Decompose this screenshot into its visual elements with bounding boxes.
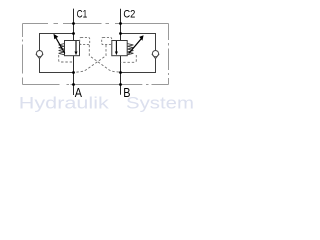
svg-text:Hydraulik: Hydraulik xyxy=(19,94,110,112)
enclosure boundary right (dash-dot) xyxy=(168,24,170,85)
junction dot C2/boundary xyxy=(119,22,122,25)
relief valve left envelope xyxy=(65,41,80,56)
wire A line below valve xyxy=(73,56,75,95)
check valve right (ball + seat) xyxy=(152,51,158,57)
adjustment arrow right xyxy=(129,39,142,54)
pilot box left (dashed) xyxy=(80,37,90,44)
relief valve right internal flow arrow xyxy=(115,41,117,52)
junction dot C1/check rail xyxy=(72,32,75,35)
wire C2 port line xyxy=(120,9,122,41)
relief valve left internal flow arrow xyxy=(75,41,77,52)
junction dot B/boundary xyxy=(119,83,122,86)
svg-text:A: A xyxy=(75,85,82,100)
enclosure boundary left (dash-dot) xyxy=(22,24,24,85)
pilot box right (dashed) xyxy=(102,37,112,44)
junction dot B/check return xyxy=(119,71,122,74)
junction dot C1/boundary xyxy=(72,22,75,25)
svg-text:C1: C1 xyxy=(77,9,88,21)
wire right check branch xyxy=(121,34,156,73)
svg-text:System: System xyxy=(126,94,194,112)
pilot line left-to-B (dashed) xyxy=(89,45,120,72)
wire B line below valve xyxy=(120,56,122,95)
relief valve right envelope xyxy=(112,41,127,56)
junction dot A/check return xyxy=(72,71,75,74)
wire left check branch xyxy=(40,34,74,73)
junction dot A/boundary xyxy=(72,83,75,86)
check valve left (ball + seat) xyxy=(36,51,42,57)
spring left xyxy=(59,44,65,55)
enclosure boundary top (dash-dot) xyxy=(23,23,169,25)
adjustment arrow left xyxy=(56,38,65,53)
pilot line right-to-A (dashed) xyxy=(74,45,106,73)
wire C1 port line xyxy=(73,9,75,41)
junction dot C2/check rail xyxy=(119,32,122,35)
svg-text:B: B xyxy=(123,85,130,100)
drain line right (dashed) xyxy=(121,55,137,62)
spring right xyxy=(127,44,133,55)
drain line left (dashed) xyxy=(59,55,74,62)
enclosure boundary bottom (dash-dot) xyxy=(23,84,169,86)
svg-text:C2: C2 xyxy=(123,9,135,21)
